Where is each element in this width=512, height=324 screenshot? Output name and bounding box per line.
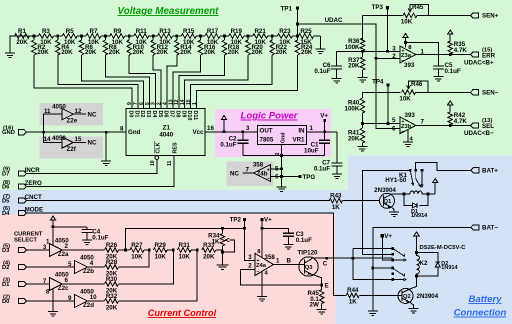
wire: K2 coil bottom to Q2 collector: [410, 276, 417, 289]
svg-text:1: 1: [192, 102, 198, 105]
junction dot Z3a output / R35: [449, 53, 452, 56]
svg-text:Connection: Connection: [454, 308, 507, 319]
connector (9) D7 INCR: [2, 167, 40, 178]
svg-text:D1: D1: [2, 282, 10, 288]
svg-text:TIP120: TIP120: [298, 250, 319, 257]
ground below C5: [433, 77, 443, 82]
svg-text:4050: 4050: [52, 103, 66, 110]
svg-text:3: 3: [43, 244, 47, 251]
wire: BAT+ jog to K1 contact: [416, 162, 471, 170]
wire: K2 row 4 stub: [373, 267, 393, 269]
connector SEN- (right): [428, 90, 499, 97]
wire: R24 to Z1 pin D11: [197, 55, 298, 109]
svg-text:+: +: [402, 48, 405, 54]
wire: TP4 down to pin5 line: [387, 85, 389, 124]
wire: R4 to Z1 pin D1: [58, 55, 138, 109]
svg-text:R11: R11: [136, 28, 148, 35]
op-amp Z4b 358 (unused half): [230, 162, 282, 183]
junction dot ladder node 4: [128, 35, 131, 38]
svg-text:6: 6: [392, 126, 396, 133]
svg-text:393: 393: [405, 112, 416, 119]
resistor R8 20K (ladder vertical): [103, 36, 121, 56]
gray box: unused op-amp Z4b: [227, 162, 274, 186]
wire: Z3a pin 8 to V+ arrow and C5: [403, 34, 439, 67]
svg-text:D0: D0: [128, 111, 134, 118]
junction dot ladder node 11: [296, 35, 299, 38]
svg-text:3: 3: [246, 125, 250, 132]
potentiometer R46 10K (rheostat): [399, 81, 428, 103]
svg-text:R27: R27: [131, 242, 143, 249]
svg-text:D7: D7: [169, 111, 175, 118]
svg-text:R32: R32: [106, 293, 118, 300]
svg-text:1N914: 1N914: [441, 265, 458, 271]
wire: TP2 down to Z4a pin 3: [244, 219, 255, 260]
connector SEN+ (right): [429, 13, 499, 20]
svg-text:7: 7: [246, 166, 250, 173]
svg-text:D3: D3: [145, 111, 151, 118]
svg-text:4: 4: [90, 260, 94, 267]
svg-text:D9: D9: [180, 111, 186, 118]
relay K1 coil: [385, 172, 429, 196]
resistor R44 1K (base drive): [346, 287, 397, 306]
wire: Z3a pin 2 stub: [376, 57, 400, 59]
relay K1 contacts: [409, 169, 424, 187]
buffer Z2a 4050: [26, 238, 69, 259]
svg-text:D4: D4: [151, 111, 157, 118]
svg-text:Z1: Z1: [163, 125, 171, 132]
junction dot ladder node 8: [223, 35, 226, 38]
svg-text:6: 6: [275, 174, 279, 181]
resistor R12 20K (ladder vertical): [151, 36, 169, 56]
svg-text:100K: 100K: [345, 105, 360, 112]
svg-text:358: 358: [265, 254, 276, 261]
wire: Q3 emitter to E node: [312, 274, 322, 285]
svg-text:10: 10: [90, 294, 97, 301]
transistor Q1 2N3904: [374, 187, 396, 208]
test point TP2: [230, 217, 246, 224]
resistor R43 1K (CNCT to Q1 base): [329, 192, 380, 211]
svg-text:MODE: MODE: [25, 207, 44, 214]
svg-text:D8: D8: [175, 111, 181, 118]
connector (7) D5 CNCT: [2, 194, 42, 205]
svg-text:2: 2: [275, 152, 281, 155]
wire: 7805 IN to V+ node: [307, 131, 337, 133]
buffer Z2d 4050: [26, 289, 97, 310]
svg-text:16: 16: [207, 125, 214, 132]
svg-text:1K: 1K: [212, 238, 220, 245]
junction dot BAT- / K2 row 4: [371, 267, 374, 270]
resistor R25 15K (ladder horizontal): [298, 28, 321, 46]
gray box: unused buffers Z2e/Z2f lower: [39, 137, 103, 159]
svg-text:2N3904: 2N3904: [374, 187, 396, 194]
svg-text:10K: 10K: [179, 254, 191, 261]
svg-text:V+: V+: [384, 233, 392, 240]
connector SEL (13): [471, 118, 495, 130]
svg-text:C: C: [323, 260, 328, 267]
svg-text:UDAC<B−: UDAC<B−: [464, 130, 494, 137]
Z1 pin 10 CLK label (inverted clock input): [155, 141, 162, 154]
wire: ladder left end to ground: [10, 36, 34, 53]
resistor R1 20K (ladder horizontal): [14, 28, 34, 46]
svg-text:20K: 20K: [133, 49, 145, 56]
junction dot DAC node 1: [124, 249, 127, 252]
svg-text:D5: D5: [157, 111, 163, 118]
junction dot ground rail / Z4b drop: [280, 154, 283, 157]
wire: R6 to Z1 pin D2: [82, 55, 144, 109]
wire: Q1 emitter to ground: [392, 207, 395, 212]
wire: Q2 emitter to ground: [410, 302, 414, 308]
wire: collector jog to K2 contacts rows 1 and 6: [353, 248, 393, 279]
svg-text:0.1uF: 0.1uF: [314, 166, 330, 173]
wire: R18 to Z1 pin D8: [179, 55, 225, 109]
svg-text:R5: R5: [66, 28, 74, 35]
potentiometer R45 10K (rheostat): [363, 4, 429, 26]
supply arrow above K2 coil: [414, 232, 419, 253]
resistor R19 10K (ladder horizontal): [224, 28, 248, 46]
junction dot Q3 collector: [325, 257, 328, 260]
svg-text:R3: R3: [42, 28, 50, 35]
wire: CNCT line to R43: [26, 200, 329, 202]
svg-text:Q3: Q3: [305, 265, 314, 271]
svg-text:D0: D0: [2, 299, 9, 305]
relay K2 coil: [415, 251, 428, 277]
wire: R20 to Z1 pin D9: [185, 55, 248, 109]
junction dot R33/R34 ground node: [221, 251, 224, 254]
buffer Z2c 4050: [26, 272, 69, 293]
junction dot DAC node 4: [196, 249, 199, 252]
svg-text:10K: 10K: [401, 19, 413, 26]
voltage regulator VR1 7805: [246, 125, 313, 145]
svg-text:BAT+: BAT+: [482, 168, 498, 175]
svg-text:D5: D5: [2, 198, 10, 204]
resistor R29 10K: [153, 242, 173, 261]
svg-text:0.1uF: 0.1uF: [314, 68, 330, 75]
svg-text:TP3: TP3: [372, 4, 384, 11]
svg-text:V+: V+: [320, 113, 328, 120]
svg-text:2: 2: [248, 263, 252, 270]
resistor R18 20K (ladder vertical): [222, 36, 240, 56]
svg-text:Voltage Measurement: Voltage Measurement: [118, 6, 220, 17]
svg-text:TP2: TP2: [230, 217, 242, 224]
resistor R16 20K (ladder vertical): [198, 36, 216, 56]
connector (4) D2: [2, 260, 26, 271]
svg-text:10: 10: [150, 160, 156, 166]
wire: row2 up to node 2: [119, 250, 150, 267]
svg-text:R9: R9: [113, 28, 121, 35]
svg-text:R23: R23: [279, 28, 291, 35]
buffer Z2e 4050 (unused): [44, 103, 97, 132]
buffer Z2b 4050: [26, 255, 94, 276]
wire: R12 to Z1 pin D5: [153, 55, 161, 109]
wire: Z1 pin 11 stub: [173, 156, 175, 161]
svg-text:2: 2: [65, 243, 69, 250]
svg-text:B: B: [287, 258, 292, 265]
gray box: unused buffers Z2e/Z2f upper: [39, 103, 103, 125]
svg-text:SELECT: SELECT: [14, 238, 37, 244]
svg-text:3: 3: [248, 254, 252, 261]
svg-text:R25: R25: [300, 28, 312, 35]
buffer Z2f 4050 (unused): [44, 132, 97, 153]
svg-text:20K: 20K: [228, 49, 240, 56]
resistor R33 20K: [202, 242, 223, 261]
connector (3) D1: [2, 277, 26, 288]
svg-text:UDAC<B+: UDAC<B+: [464, 59, 494, 66]
resistor R43sense 0.1 2W: [307, 285, 324, 310]
svg-text:20K: 20K: [276, 49, 288, 56]
svg-text:ZERO: ZERO: [25, 180, 42, 187]
svg-text:R26: R26: [106, 242, 118, 249]
pink box: logic power: [215, 109, 331, 157]
svg-text:R19: R19: [231, 28, 243, 35]
wire: R25 right end down to ground: [320, 36, 322, 49]
svg-text:11: 11: [44, 108, 51, 115]
junction dot +5V rail / arrow: [223, 130, 226, 133]
ground below Z4a pin 4: [257, 297, 267, 302]
svg-text:R21: R21: [254, 28, 266, 35]
transistor Q2 2N3904: [398, 288, 439, 303]
svg-text:20K: 20K: [252, 49, 264, 56]
resistor R15 10K (ladder horizontal): [177, 28, 201, 46]
svg-text:2W: 2W: [310, 301, 319, 308]
svg-text:R7: R7: [90, 28, 98, 35]
test point TP4: [372, 79, 389, 87]
capacitor C7 0.1uF (V+ bypass): [314, 132, 343, 179]
op-amp Z4a 358: [255, 249, 275, 277]
svg-text:D1: D1: [133, 111, 139, 118]
svg-text:SEL: SEL: [482, 123, 494, 130]
resistor R31 10K: [177, 242, 197, 261]
ground below BAT- vertical: [368, 311, 378, 316]
svg-text:D2: D2: [2, 265, 9, 271]
resistor R10 20K (ladder vertical): [127, 36, 145, 56]
svg-text:D4: D4: [2, 211, 10, 217]
section background: current control (pink): [0, 214, 335, 324]
svg-text:NC: NC: [230, 170, 239, 177]
svg-text:2N3904: 2N3904: [417, 293, 439, 300]
svg-text:4.7K: 4.7K: [454, 118, 468, 125]
wire: K1 common left and down (to BAT- net): [363, 170, 411, 254]
svg-text:UDAC: UDAC: [325, 17, 343, 24]
junction dot R36/R37 (Z3a pin 3 node): [361, 50, 364, 53]
wire: row3 up to node 3: [119, 250, 174, 284]
svg-text:7: 7: [421, 119, 425, 126]
wire: R16 to Z1 pin D7: [173, 55, 201, 109]
Z1 pin number 5 / label D3: [145, 102, 151, 117]
svg-text:R15: R15: [183, 28, 195, 35]
resistor R22 20K (ladder vertical): [270, 36, 288, 56]
svg-text:6: 6: [65, 277, 69, 284]
junction dot TP2 line / DAC line: [243, 227, 246, 230]
svg-text:1N914: 1N914: [411, 213, 428, 219]
svg-text:4.7K: 4.7K: [454, 47, 468, 54]
resistor R24 20K (ladder vertical): [295, 36, 313, 56]
svg-text:+: +: [402, 119, 405, 125]
svg-text:D6: D6: [2, 184, 10, 190]
Z1 pin number 15 / label D10: [186, 99, 192, 120]
svg-text:3: 3: [392, 45, 396, 52]
svg-text:20K: 20K: [37, 49, 49, 56]
junction dot GND line / Z2e-Z2f inputs: [42, 131, 45, 134]
wire: INCR line to Z1 pin 10 (CLK): [26, 160, 156, 174]
junction dot ladder node 5: [152, 35, 155, 38]
svg-text:NC: NC: [88, 140, 97, 147]
resistor R41 20K: [348, 124, 365, 147]
wire: Z3a output to ERR connector: [416, 54, 471, 56]
junction dot R40/R41 (Z3b pin 5 node): [361, 122, 364, 125]
wire: row4 up to node 4: [119, 250, 198, 301]
svg-text:20K: 20K: [348, 62, 360, 69]
svg-text:−: −: [267, 176, 270, 182]
connector (6) D4 MODE: [2, 206, 43, 217]
svg-text:IN: IN: [298, 127, 305, 134]
svg-text:1: 1: [276, 258, 280, 265]
junction dot ladder node 9: [247, 35, 250, 38]
resistor R14 20K (ladder vertical): [175, 36, 193, 56]
Z1 pin number 12 / label D8: [174, 99, 180, 117]
svg-text:V+: V+: [264, 217, 272, 224]
IC Z1 4040 (12-bit counter) body: [126, 109, 205, 156]
wire: Z4a output to Q3 base: [273, 264, 299, 266]
svg-text:5: 5: [68, 261, 72, 268]
wire: BAT- line down through K2 row 4 to ground: [373, 227, 471, 311]
junction dot DAC node 2: [148, 249, 151, 252]
Z1 pin number 1 / label D11: [192, 102, 198, 120]
connector ERR (15): [471, 47, 496, 59]
ground below Q2: [409, 309, 419, 314]
resistor R23 10K (ladder horizontal): [272, 28, 297, 46]
wire: pin3 node left to C6: [337, 51, 363, 66]
resistor R37 20K: [348, 51, 365, 77]
svg-text:20K: 20K: [61, 49, 73, 56]
svg-text:Gnd: Gnd: [128, 129, 141, 136]
svg-text:100K: 100K: [345, 44, 360, 51]
svg-text:TP1: TP1: [281, 6, 293, 13]
wire: Q3 collector up to relay line: [312, 257, 327, 259]
connector BAT+: [471, 168, 498, 175]
ground below Q1: [389, 212, 399, 217]
svg-text:358: 358: [253, 162, 264, 169]
svg-text:0.1uF: 0.1uF: [92, 235, 108, 242]
svg-text:SEN+: SEN+: [482, 13, 499, 20]
svg-text:7: 7: [43, 278, 47, 285]
wire: TP1 down to ladder node: [297, 8, 299, 36]
Z1 pin number 9 / label D0: [127, 102, 133, 117]
wire: pin3 node to Z3a pin 3: [363, 50, 401, 52]
svg-text:R46: R46: [411, 81, 423, 88]
svg-text:−: −: [257, 269, 260, 275]
connector (16) GND: [2, 126, 26, 137]
svg-text:R13: R13: [159, 28, 171, 35]
ground below C6: [332, 79, 342, 84]
resistor R30 20K: [62, 276, 118, 295]
svg-text:393: 393: [404, 62, 415, 69]
connector BAT-: [471, 225, 498, 232]
wire: Z2c pin 8 to ground: [46, 289, 58, 317]
svg-text:NC: NC: [88, 111, 97, 118]
svg-text:20K: 20K: [16, 39, 28, 46]
svg-text:TPG: TPG: [303, 174, 316, 181]
junction dot ladder node 3: [104, 35, 107, 38]
net label TPG: [282, 174, 316, 181]
svg-text:Z2f: Z2f: [67, 146, 77, 153]
capacitor C6 0.1uF: [314, 62, 342, 79]
svg-text:CLK: CLK: [156, 142, 162, 153]
wire: UDAC line to Z3a pin 2 and Z3b pin 6: [298, 24, 401, 129]
wire: Z4a pin 2 feedback from emitter: [240, 269, 321, 285]
svg-text:10K: 10K: [155, 254, 167, 261]
wire: Z3b pin 4 to ground: [407, 130, 409, 143]
svg-text:1: 1: [310, 125, 314, 132]
svg-text:R1: R1: [18, 28, 26, 35]
svg-text:−: −: [402, 129, 405, 135]
svg-text:+: +: [257, 258, 260, 264]
svg-text:HY1-50: HY1-50: [385, 177, 407, 184]
junction dot TP3/pin3 line: [386, 50, 389, 53]
resistor R26 20K: [62, 242, 118, 261]
svg-text:R31: R31: [179, 242, 191, 249]
ground below current sense resistor: [317, 310, 327, 315]
resistor R27 10K: [130, 242, 149, 261]
Z1 pin number 2 / label D5: [157, 102, 163, 117]
svg-text:Gnd: Gnd: [280, 132, 286, 143]
supply arrow for K1 coil: [428, 179, 438, 194]
wire: ZERO line to Z1 pin 11 (RES): [26, 160, 174, 187]
capacitor C2 0.1uF: [220, 132, 248, 156]
resistor R32 20K: [88, 293, 119, 312]
wire: node down to ground: [222, 252, 224, 265]
Z1 pin number 6 / label D2: [139, 102, 145, 117]
junction dot GND line / ground stub: [105, 131, 108, 134]
svg-text:TP4: TP4: [372, 79, 384, 86]
resistor R2 20K (ladder vertical): [32, 36, 50, 56]
junction dot ladder node 2: [80, 35, 83, 38]
test point TP1: [281, 6, 300, 13]
wire: R8 to Z1 pin D3: [105, 55, 149, 109]
junction dot collector line / jog: [352, 257, 355, 260]
resistor R9 10K (ladder horizontal): [105, 28, 129, 46]
test point TP3: [372, 4, 390, 11]
ground below GND line: [101, 161, 111, 166]
junction dot UDAC takeoff: [296, 23, 299, 26]
svg-text:R17: R17: [207, 28, 219, 35]
svg-text:Z2b: Z2b: [83, 268, 94, 275]
junction dot +5V rail / C2: [241, 130, 244, 133]
Z1 pin number 13 / label D7: [168, 99, 174, 117]
svg-text:9: 9: [68, 295, 72, 302]
diode D2 1N914 (flyback): [417, 253, 459, 277]
relay K2 contacts: [391, 247, 406, 281]
junction dot E node (emitter/R43 sense): [320, 284, 323, 287]
connector (2) D0: [2, 294, 26, 305]
svg-text:R30: R30: [106, 276, 118, 283]
svg-text:VR1: VR1: [292, 137, 305, 144]
Z1 pin number 3 / label D4: [151, 102, 157, 117]
wire: ground rail down through Z4b pins to ground: [277, 156, 287, 192]
svg-text:Current Control: Current Control: [148, 308, 217, 318]
wire: junction down to ground: [105, 132, 107, 161]
V+ supply to Z4a pin 8: [260, 217, 272, 258]
junction dot TP4/pin5 line: [387, 122, 390, 125]
svg-text:R43: R43: [330, 192, 342, 199]
capacitor C5 0.1uF: [433, 62, 461, 77]
svg-text:20K: 20K: [109, 49, 121, 56]
label CURRENT SELECT: [14, 232, 43, 244]
svg-text:Z2a: Z2a: [58, 251, 69, 258]
wire: logic power ground rail: [243, 155, 325, 157]
svg-text:SEN−: SEN−: [482, 90, 499, 97]
wire: Z4a pin 4 to ground: [261, 271, 263, 296]
svg-text:R45: R45: [412, 4, 424, 11]
